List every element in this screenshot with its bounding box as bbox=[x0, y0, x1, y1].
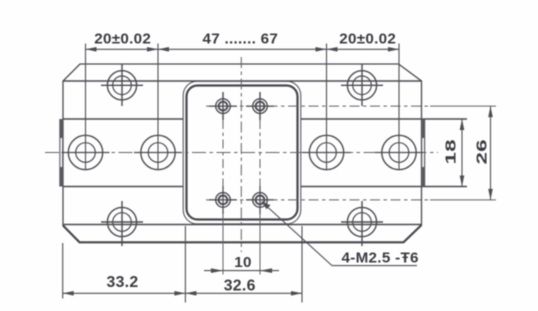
small holes row centerline bottom bbox=[206, 199, 430, 201]
hole B4 bottom-right (362,222) bbox=[347, 207, 376, 236]
dim line 47-67 bbox=[158, 48, 327, 50]
horizontal centerline bbox=[45, 152, 438, 154]
ext line 32.6 right bbox=[301, 226, 303, 303]
tapped hole C3 v-crosshair bbox=[222, 186, 224, 214]
hole B4 crosshair bbox=[341, 221, 383, 223]
hole B3 crosshair bbox=[101, 221, 143, 223]
tapped hole C2 h-crosshair bbox=[246, 105, 274, 107]
10 extension right bbox=[259, 186, 261, 275]
hole A1 crosshair bbox=[62, 152, 110, 154]
dim 33.2 line bbox=[63, 292, 186, 294]
tapped hole C4 v-crosshair bbox=[259, 186, 261, 214]
svg-text:4-M2.5 -Ŧ6: 4-M2.5 -Ŧ6 bbox=[342, 250, 419, 267]
hole A2 counterbore (158,152.5) bbox=[141, 135, 175, 169]
10 extension left bbox=[222, 186, 224, 275]
body outline bbox=[63, 64, 422, 242]
hole A2 crosshair bbox=[134, 152, 182, 154]
dimension graphics bbox=[63, 44, 493, 303]
dimension texts bbox=[94, 31, 490, 295]
top extension line col4 bbox=[398, 44, 400, 171]
tapped hole C4 h-crosshair bbox=[246, 199, 274, 201]
svg-text:10: 10 bbox=[234, 254, 252, 271]
right side tab bbox=[421, 119, 425, 187]
26 extension top bbox=[430, 105, 496, 107]
hole B1 top-left (122,85.3) bbox=[107, 71, 136, 100]
body edge line y=119 left bbox=[63, 118, 183, 120]
tapped hole C3 h-crosshair bbox=[209, 199, 237, 201]
svg-text:20±0.02: 20±0.02 bbox=[94, 31, 151, 48]
small holes column centerline right bbox=[259, 120, 261, 186]
dim 32.6 line bbox=[185, 292, 302, 294]
top extension line col1 bbox=[85, 44, 87, 171]
svg-text:33.2: 33.2 bbox=[107, 274, 139, 291]
hole A3 counterbore (326.5,152.5) bbox=[309, 135, 343, 169]
small holes column centerline left bbox=[222, 120, 224, 186]
dim line 20 right bbox=[327, 48, 400, 50]
hole A1 counterbore (85.5,152.5) bbox=[68, 135, 102, 169]
ext line 33.2/32.6 shared bbox=[184, 226, 186, 303]
dim 18 line bbox=[461, 119, 463, 187]
dim 26 line bbox=[490, 106, 492, 200]
dim line 20 left bbox=[86, 48, 159, 50]
svg-text:18: 18 bbox=[443, 139, 460, 164]
hole B1 crosshair bbox=[101, 84, 143, 86]
26 extension bottom bbox=[430, 199, 496, 201]
center plate thick edge bbox=[187, 86, 298, 220]
top extension line col3 bbox=[326, 44, 328, 171]
body edge line y=81 bbox=[63, 80, 422, 82]
tapped hole C2 crosshair bbox=[259, 92, 261, 120]
svg-text:26: 26 bbox=[473, 139, 490, 164]
hole B2 top-right (362,85.3) bbox=[347, 71, 376, 100]
center plate outer contour bbox=[183, 81, 301, 224]
leader line 4-M2.5 bbox=[262, 202, 333, 266]
tapped hole C4 (260,199.9) bbox=[253, 193, 268, 208]
dim 10 line bbox=[204, 270, 279, 272]
body edge line y=186.5 right + 18 extension bbox=[301, 186, 467, 188]
hole A4 crosshair bbox=[375, 152, 423, 154]
body edge line y=119 right + 18 extension bbox=[301, 118, 467, 120]
left tab slot bbox=[60, 138, 62, 167]
vertical centerline bbox=[240, 57, 242, 252]
hole B2 crosshair bbox=[341, 84, 383, 86]
svg-text:32.6: 32.6 bbox=[224, 277, 256, 294]
ext line 33.2 left bbox=[62, 243, 64, 299]
tapped hole C1 h-crosshair bbox=[209, 105, 237, 107]
body bottom thick edge bbox=[63, 225, 422, 242]
hole A4 counterbore (399,152.5) bbox=[382, 135, 416, 169]
tapped hole C1 (223,106.1) bbox=[216, 99, 231, 114]
right tab slot bbox=[422, 138, 424, 167]
tapped hole C2 (260,106.1) bbox=[253, 99, 268, 114]
tapped hole C1 crosshair bbox=[222, 92, 224, 120]
small holes row centerline top bbox=[206, 105, 430, 107]
top extension line col2 bbox=[157, 44, 159, 171]
hole A3 crosshair bbox=[303, 152, 351, 154]
hole B3 bottom-left (122,222) bbox=[107, 207, 136, 236]
body edge line y=224.5 bbox=[63, 224, 422, 226]
body edge line y=186.5 left bbox=[63, 186, 183, 188]
tapped hole C3 (223,199.9) bbox=[216, 193, 231, 208]
svg-text:20±0.02: 20±0.02 bbox=[339, 31, 396, 48]
left side tab bbox=[59, 119, 63, 187]
svg-text:47 ....... 67: 47 ....... 67 bbox=[202, 31, 278, 48]
